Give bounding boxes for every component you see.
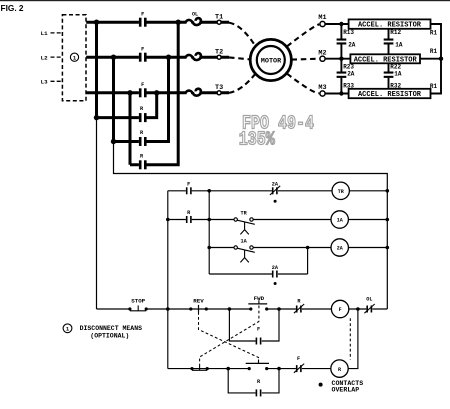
svg-text:2A: 2A xyxy=(272,265,279,271)
svg-text:F: F xyxy=(297,356,300,362)
svg-text:FWD: FWD xyxy=(254,295,265,302)
svg-text:T3: T3 xyxy=(215,84,223,92)
svg-text:L3: L3 xyxy=(41,79,48,86)
svg-text:2A: 2A xyxy=(337,246,343,252)
svg-text:R22: R22 xyxy=(390,63,401,70)
svg-text:ACCEL. RESISTOR: ACCEL. RESISTOR xyxy=(358,91,422,99)
svg-text:2A: 2A xyxy=(347,71,355,78)
svg-text:2A: 2A xyxy=(272,182,279,188)
svg-text:REV: REV xyxy=(193,298,204,305)
svg-text:F: F xyxy=(141,12,144,18)
svg-text:2A: 2A xyxy=(348,41,356,48)
svg-text:F: F xyxy=(257,327,260,333)
svg-text:R1: R1 xyxy=(430,83,438,90)
svg-text:F: F xyxy=(141,82,144,88)
svg-text:M3: M3 xyxy=(318,84,326,92)
svg-text:1A: 1A xyxy=(394,71,402,78)
svg-text:OL: OL xyxy=(192,12,198,18)
svg-text:1A: 1A xyxy=(337,218,343,224)
svg-text:L2: L2 xyxy=(41,54,48,61)
svg-text:FIG. 2: FIG. 2 xyxy=(1,3,24,13)
svg-text:R33: R33 xyxy=(343,83,354,90)
svg-text:1A: 1A xyxy=(240,238,247,244)
svg-text:R: R xyxy=(338,367,341,373)
svg-text:R23: R23 xyxy=(343,63,354,70)
svg-text:F: F xyxy=(141,47,144,53)
svg-text:TR: TR xyxy=(240,210,247,216)
svg-text:135%: 135% xyxy=(239,130,276,151)
svg-text:(OPTIONAL): (OPTIONAL) xyxy=(90,333,129,340)
svg-text:F: F xyxy=(187,181,190,187)
svg-text:DISCONNECT MEANS: DISCONNECT MEANS xyxy=(80,325,143,332)
svg-text:T2: T2 xyxy=(215,48,223,56)
svg-text:T1: T1 xyxy=(215,13,223,21)
svg-text:L1: L1 xyxy=(41,30,48,37)
svg-text:M2: M2 xyxy=(318,50,326,58)
svg-text:R12: R12 xyxy=(390,29,401,36)
svg-text:M1: M1 xyxy=(318,14,326,22)
svg-text:STOP: STOP xyxy=(131,297,145,304)
svg-text:OL: OL xyxy=(366,297,372,303)
svg-text:R13: R13 xyxy=(343,29,354,36)
svg-text:TR: TR xyxy=(338,189,344,195)
svg-text:MOTOR: MOTOR xyxy=(261,57,282,65)
svg-text:OVERLAP: OVERLAP xyxy=(332,387,360,394)
svg-text:ACCEL. RESISTOR: ACCEL. RESISTOR xyxy=(354,57,418,65)
svg-text:R32: R32 xyxy=(390,83,401,90)
svg-text:R1: R1 xyxy=(430,48,438,55)
svg-text:F: F xyxy=(339,307,342,313)
svg-text:R1: R1 xyxy=(430,29,438,36)
svg-text:1A: 1A xyxy=(395,41,403,48)
